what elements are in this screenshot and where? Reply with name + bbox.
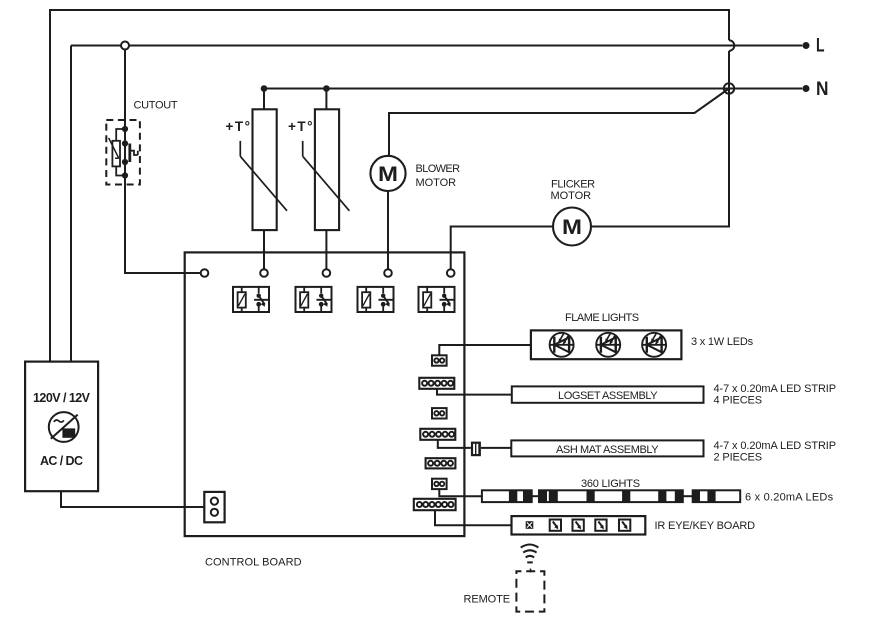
svg-text:2 PIECES: 2 PIECES [714,451,763,463]
cutout TC1 [106,120,140,185]
wire right drop from bridge down to flicker feed corner [591,51,729,227]
svg-text:6 x 0.20mA LEDs: 6 x 0.20mA LEDs [745,491,834,503]
IR eye / key board box [512,516,646,534]
wire strip link B-C [683,495,693,497]
svg-text:CUTOUT: CUTOUT [134,100,179,112]
svg-text:IR EYE/KEY BOARD: IR EYE/KEY BOARD [655,520,756,532]
svg-text:BLOWER: BLOWER [416,163,461,175]
key button S1 [550,520,561,531]
wire strip link A-B [532,495,539,497]
svg-text:4 PIECES: 4 PIECES [714,394,763,406]
360 lights strip segment B [539,490,683,502]
svg-text:N: N [816,79,829,100]
svg-text:LOGSET ASSEMBLY: LOGSET ASSEMBLY [558,390,658,402]
key button S4 [619,520,630,531]
svg-text:L: L [816,35,825,56]
control board PCB [185,252,465,536]
connector J4 [420,429,455,440]
inline plug P1 [471,442,481,457]
svg-text:120V / 12V: 120V / 12V [33,391,91,405]
wire connector J2 to logset assembly [437,389,512,395]
node relay input 1 [260,269,268,277]
wire AC/DC output to board connector [61,491,204,507]
svg-text:CONTROL BOARD: CONTROL BOARD [205,557,302,569]
svg-text:AC / DC: AC / DC [40,454,83,468]
board input connector from AC/DC [204,492,224,522]
node junction at cutout top [121,42,129,50]
svg-text:+T°: +T° [226,119,251,134]
wire inner left vertical to AC/DC [70,46,72,362]
relay K3 [358,287,395,312]
relay K4 [419,287,456,312]
wire L line [71,45,802,47]
wire outer frame from AC/DC input up across top to right drop [50,10,729,362]
heater E2 [303,109,350,230]
svg-text:MOTOR: MOTOR [551,190,592,202]
node relay input 2 [323,269,331,277]
junction dot heater E1 [261,85,268,92]
svg-text:4-7 x 0.20mA LED STRIP: 4-7 x 0.20mA LED STRIP [714,383,837,395]
wire N line [729,88,802,90]
wire heater E2 top stub [325,89,327,110]
connector J7 [414,499,456,510]
wire heater E2 bottom stub [325,230,327,273]
svg-text:REMOTE: REMOTE [464,594,511,606]
wire connector J4 to ash mat [438,440,512,448]
IR receiver symbol [526,521,534,529]
ash mat assembly box [511,440,703,456]
connector J3 [432,408,447,418]
LED D3 [642,333,666,357]
connector J2 [419,378,454,389]
wire N junction to blower motor [389,89,729,157]
junction dot heater E2 [323,85,330,92]
relay K2 [296,287,333,312]
connector J5 [426,458,456,468]
wire cutout branch down into control board node [125,46,201,274]
svg-text:+T°: +T° [288,119,313,134]
wire blower motor bottom stub [387,191,389,273]
wire flicker motor to relay input [451,227,553,274]
360 lights strip segment C [693,490,741,502]
heater E1 [240,109,287,230]
flicker motor M2 [553,208,591,246]
connector J1 [432,355,447,365]
logset assembly box [512,386,704,402]
junction N circle [724,83,734,93]
svg-text:M: M [562,215,582,239]
svg-text:4-7 x 0.20mA LED STRIP: 4-7 x 0.20mA LED STRIP [714,440,837,452]
terminal dot N [803,85,810,92]
svg-text:3 x 1W LEDs: 3 x 1W LEDs [691,336,754,348]
wire hop bridge over L line [729,40,734,51]
flame lights assembly box [531,330,682,359]
svg-text:FLAME LIGHTS: FLAME LIGHTS [565,312,640,324]
node relay input 3 [384,269,392,277]
key button S3 [595,520,606,531]
remote IR waves [521,545,539,563]
remote control box [516,571,544,611]
blower motor M1 [370,156,405,191]
wire connector J7 to IR board [435,510,512,525]
svg-text:360 LIGHTS: 360 LIGHTS [581,478,641,490]
wire connector J1 to flame lights [439,345,531,355]
key button S2 [573,520,584,531]
terminal dot L [803,42,810,49]
LED D1 [550,333,574,357]
svg-text:FLICKER: FLICKER [551,179,596,191]
svg-text:ASH MAT ASSEMBLY: ASH MAT ASSEMBLY [556,444,659,456]
node relay input 4 [447,269,455,277]
svg-text:MOTOR: MOTOR [416,177,457,189]
360 lights strip segment A [482,490,532,502]
wire connector J6 to 360 lights strip [439,489,482,496]
120V/12V AC/DC power supply U1 [25,362,98,492]
remote antenna tick [530,569,532,573]
relay K1 [233,287,270,312]
wire heater supply bus [264,88,729,90]
node board input from cutout [201,269,209,277]
connector J6 [432,479,447,489]
svg-text:M: M [378,162,398,186]
wire heater E1 bottom stub [263,230,265,273]
LED D2 [596,333,620,357]
wire heater E1 top stub [263,89,265,110]
